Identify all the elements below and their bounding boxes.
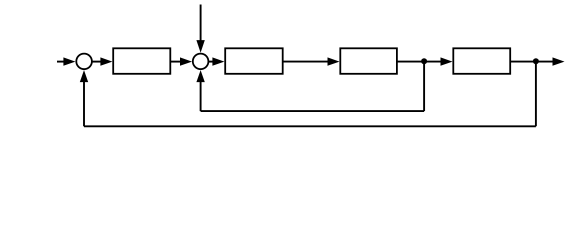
block G4 xyxy=(453,48,510,74)
arrowhead: input into summing junction S1 xyxy=(63,57,75,65)
node N1 (junction dot after block G3) xyxy=(421,58,427,64)
block G2 xyxy=(225,48,283,74)
arrowhead: into block G2 xyxy=(212,57,224,65)
arrowhead: into block G4 xyxy=(441,57,453,65)
wire: summing junction S1 output to block G1 xyxy=(92,61,102,63)
summing junction S1 xyxy=(76,54,92,70)
wire: block G1 output to summing junction S2 xyxy=(170,61,181,63)
wire: outer feedback rise into summing junction S1 xyxy=(83,81,85,126)
arrowhead: outer feedback into summing junction S1 pointing up xyxy=(80,70,88,82)
arrowhead: into block G1 xyxy=(100,57,112,65)
node N2 (output junction dot) xyxy=(533,58,539,64)
wire: node N1 to block G4 xyxy=(424,61,441,63)
wire: block G2 output to block G3 xyxy=(283,61,329,63)
arrowhead: system output pointing right xyxy=(553,57,565,65)
summing junction S2 xyxy=(193,54,209,70)
wire: outer feedback bottom horizontal run xyxy=(84,125,536,127)
arrowhead: into summing junction S2 from left xyxy=(180,57,192,65)
wire: input reference into summing junction S1 xyxy=(57,61,65,63)
arrowhead: top input into summing junction S2 pointing down xyxy=(196,40,204,53)
wire: node N2 to output arrow xyxy=(536,61,554,63)
wire: block G3 output to node N1 xyxy=(397,61,424,63)
block G1 xyxy=(113,48,170,74)
wire: top disturbance input into summing junction S2 xyxy=(200,5,202,42)
wire: inner feedback bottom horizontal run xyxy=(201,110,425,112)
arrowhead: into block G3 xyxy=(328,57,340,65)
wire: block G4 output to node N2 xyxy=(510,61,536,63)
wire: summing junction S2 output to block G2 xyxy=(209,61,214,63)
block G3 xyxy=(340,48,397,74)
wire: inner feedback rise into summing junction S2 xyxy=(200,81,202,111)
arrowhead: inner feedback into summing junction S2 pointing up xyxy=(196,70,204,82)
wire: inner feedback vertical drop from node N1 xyxy=(423,62,425,112)
wire: outer feedback vertical drop from node N2 xyxy=(535,62,537,127)
